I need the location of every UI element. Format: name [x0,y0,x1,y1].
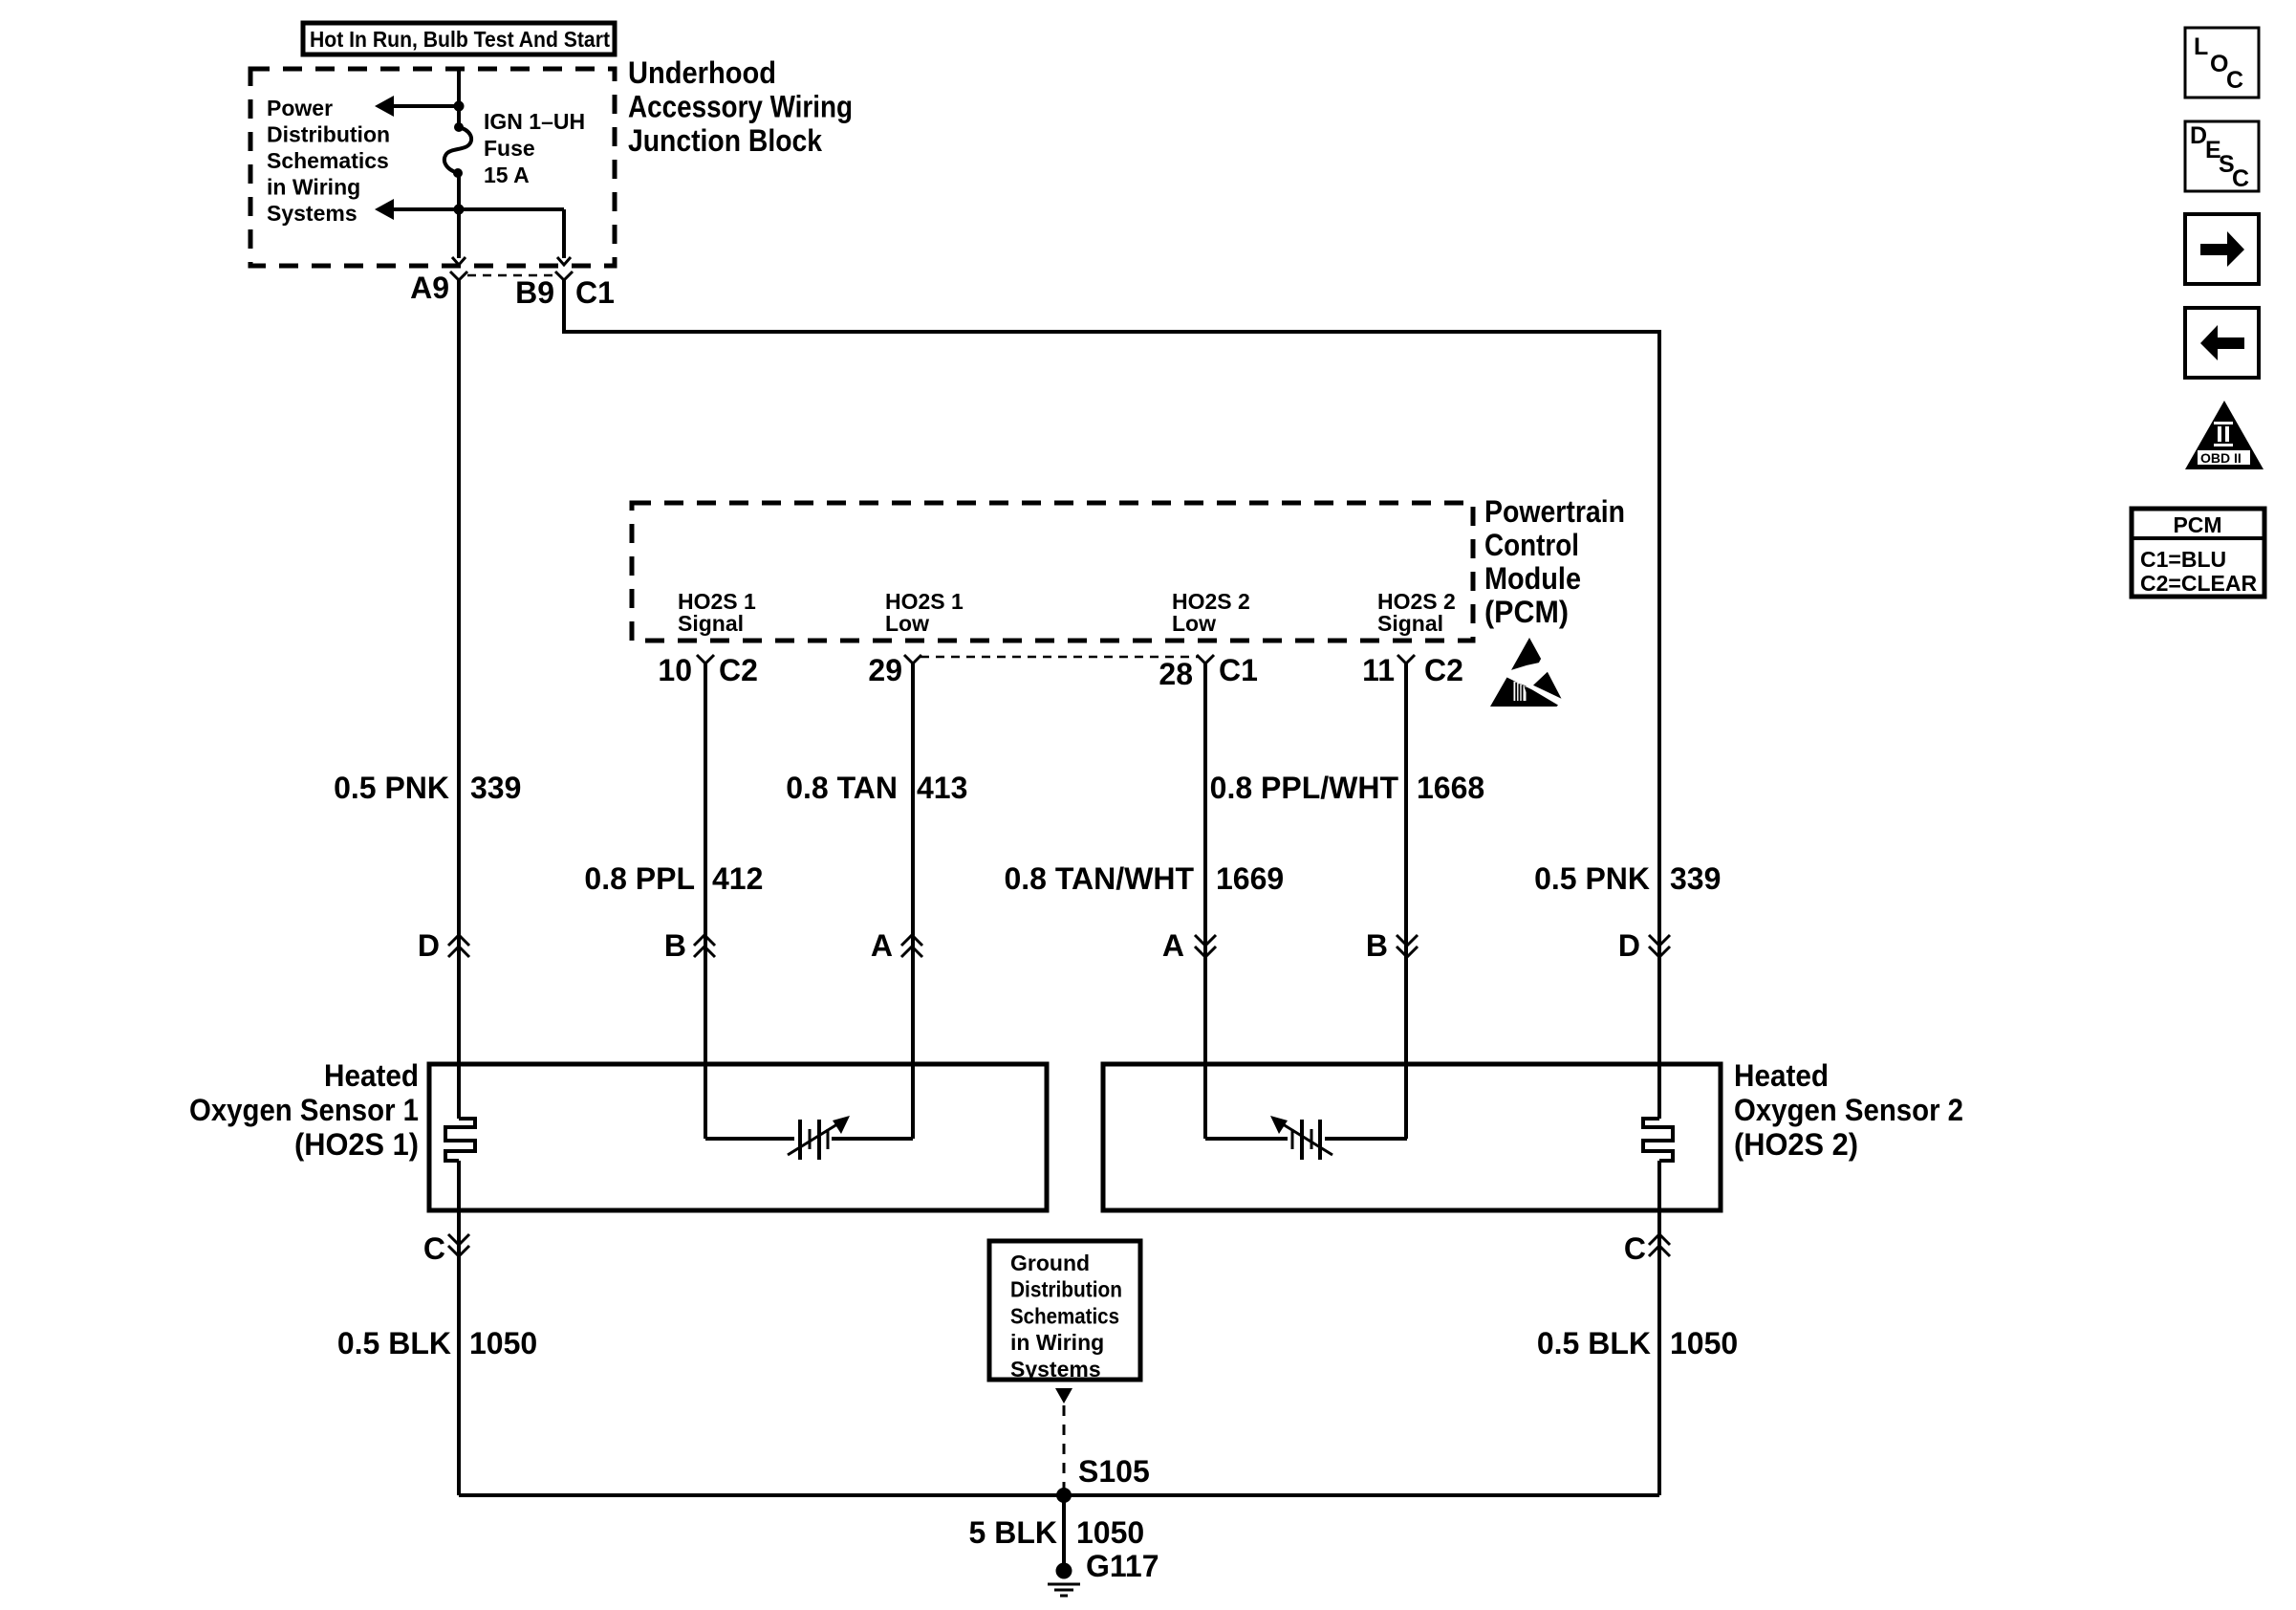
label 0.8 PPL/WHT 1668 [1210,771,1485,805]
svg-text:Signal: Signal [678,611,744,636]
label 0.5 PNK 339 left [334,771,521,805]
svg-text:Systems: Systems [1010,1357,1101,1382]
pin 29 [868,653,921,687]
connector B left (up) [664,928,715,963]
splice S105 [1056,1454,1150,1503]
svg-text:0.8 PPL/WHT: 0.8 PPL/WHT [1210,771,1399,805]
sensing element HO2S 1 [705,1116,913,1160]
HO2S 2 label [1734,1058,1963,1162]
junction block label [628,55,853,158]
wire: 0.5 PNK 339 (left feed to HO2S 1) [457,280,461,1119]
ESD symbol [1490,638,1562,707]
pin label HO2S 2 Low [1172,589,1250,636]
junction dot above fuse [454,101,465,112]
svg-text:0.5 BLK: 0.5 BLK [1537,1326,1651,1360]
power distribution note [267,96,390,226]
connector B right (down) [1366,928,1418,963]
wire: HO2S1 ground lead [457,1161,461,1495]
svg-text:0.5 BLK: 0.5 BLK [337,1326,451,1360]
svg-text:Oxygen Sensor 2: Oxygen Sensor 2 [1734,1093,1963,1127]
wire: feed from hot into block [457,67,461,126]
svg-text:Systems: Systems [267,201,357,226]
svg-text:PCM: PCM [2173,512,2221,537]
svg-text:15 A: 15 A [484,163,530,187]
connector B9 / C1 [515,272,615,310]
heater element HO2S 2 [1643,1119,1673,1161]
ground note pointer triangle [1055,1388,1072,1403]
svg-text:C1: C1 [1219,653,1258,687]
svg-text:D: D [1618,928,1640,963]
label 0.8 PPL 412 [584,861,763,896]
label 0.5 BLK 1050 left [337,1326,537,1360]
arrowhead into A9 [452,257,466,265]
svg-text:Schematics: Schematics [1010,1303,1119,1328]
PCM label [1484,494,1625,629]
ground distribution note box [989,1241,1140,1382]
svg-text:412: 412 [712,861,763,896]
svg-text:G117: G117 [1086,1549,1159,1583]
svg-text:1669: 1669 [1216,861,1284,896]
label 5 BLK 1050 [969,1515,1145,1550]
svg-text:1668: 1668 [1417,771,1484,805]
svg-text:C2=CLEAR: C2=CLEAR [2140,571,2257,596]
svg-text:29: 29 [868,653,902,687]
svg-text:Heated: Heated [324,1058,419,1093]
wire: feed to HO2S 2 via right side [564,280,1659,1119]
svg-text:28: 28 [1159,657,1193,691]
svg-text:413: 413 [917,771,967,805]
sensing element HO2S 2 [1205,1116,1407,1160]
arrow to power distribution (lower) [375,199,564,220]
svg-text:C: C [423,1231,445,1266]
connector A right (down) [1162,928,1216,963]
arrowhead into B9 [557,257,571,265]
icon DESC [2185,121,2259,192]
dashed connector face 29-28 [921,656,1198,659]
connector D left (up) [418,928,469,963]
fuse IGN 1-UH 15 A [444,122,471,178]
icon arrow left [2185,308,2259,378]
svg-text:IGN 1–UH: IGN 1–UH [484,109,585,134]
label 0.5 PNK 339 right [1534,861,1721,896]
HO2S 1 box [429,1064,1047,1210]
heater element HO2S 1 [445,1119,475,1161]
icon LOC [2185,28,2259,98]
svg-text:Powertrain: Powertrain [1484,494,1625,529]
svg-text:Signal: Signal [1377,611,1443,636]
svg-text:5 BLK: 5 BLK [969,1515,1057,1550]
svg-text:C2: C2 [719,653,758,687]
icon OBD II triangle [2185,401,2264,469]
pin label HO2S 1 Low [885,589,964,636]
wire: splice to ground [1062,1495,1066,1566]
connector C right (up) [1624,1231,1670,1266]
svg-text:339: 339 [1670,861,1721,896]
icon arrow right [2185,214,2259,284]
svg-text:(PCM): (PCM) [1484,595,1569,629]
svg-text:C1: C1 [575,275,615,310]
wire: pin 28 HO2S2 low [1203,664,1207,1139]
svg-text:S105: S105 [1078,1454,1150,1489]
HO2S 1 label [189,1058,419,1162]
wire: pin 11 HO2S2 signal [1404,664,1408,1139]
svg-text:Control: Control [1484,528,1579,562]
svg-text:Fuse: Fuse [484,136,535,161]
PCM dashed box [632,503,1473,641]
svg-text:in Wiring: in Wiring [1010,1330,1104,1355]
fuse label [484,109,585,187]
svg-text:1050: 1050 [1670,1326,1738,1360]
PCM connector legend [2132,509,2264,597]
svg-text:Hot In Run, Bulb Test And Star: Hot In Run, Bulb Test And Start [310,27,610,52]
wire: fuse output [457,173,461,258]
label 0.8 TAN 413 [786,771,967,805]
svg-text:1050: 1050 [1076,1515,1144,1550]
pin 11 C2 [1362,653,1463,687]
svg-text:Power: Power [267,96,333,120]
svg-text:0.5 PNK: 0.5 PNK [1534,861,1650,896]
svg-text:C: C [1624,1231,1646,1266]
svg-text:L: L [2194,33,2208,60]
svg-text:Low: Low [1172,611,1216,636]
arrow to power distribution (upper) [375,96,459,117]
svg-text:Junction Block: Junction Block [628,123,822,158]
wire: HO2S2 ground lead [1657,1161,1661,1495]
wire: ground bus 5 BLK 1050 [459,1493,1659,1497]
svg-text:(HO2S 1): (HO2S 1) [294,1127,419,1162]
junction dot below fuse [454,205,465,215]
svg-text:Ground: Ground [1010,1251,1090,1275]
connector D right (down) [1618,928,1670,963]
svg-text:Heated: Heated [1734,1058,1829,1093]
HO2S 2 box [1103,1064,1721,1210]
pin label HO2S 1 Signal [678,589,756,636]
ground G117 [1048,1549,1159,1596]
hot feed label box [303,23,615,54]
svg-text:Distribution: Distribution [267,122,390,147]
svg-text:10: 10 [658,653,692,687]
svg-text:D: D [418,928,440,963]
svg-text:339: 339 [470,771,521,805]
svg-text:B: B [664,928,686,963]
connector A left (up) [871,928,922,963]
dashed link to S105 [1063,1405,1066,1490]
pin 28 C1 [1159,653,1258,691]
svg-text:A9: A9 [410,271,449,305]
wire: pin 29 HO2S1 low [911,664,915,1139]
svg-text:(HO2S 2): (HO2S 2) [1734,1127,1858,1162]
wire: pin 10 HO2S1 signal [704,664,707,1139]
connector C left (down) [423,1231,469,1266]
label 0.8 TAN/WHT 1669 [1004,861,1284,896]
pin label HO2S 2 Signal [1377,589,1456,636]
svg-text:Oxygen Sensor 1: Oxygen Sensor 1 [189,1093,419,1127]
svg-text:C1=BLU: C1=BLU [2140,547,2226,572]
dashed connector face A9-B9 [467,274,555,277]
svg-text:A: A [1162,928,1184,963]
svg-text:C: C [2226,67,2243,94]
svg-text:Low: Low [885,611,929,636]
svg-text:1050: 1050 [469,1326,537,1360]
svg-text:OBD II: OBD II [2200,450,2242,466]
svg-text:0.5 PNK: 0.5 PNK [334,771,449,805]
svg-text:Module: Module [1484,561,1581,596]
underhood junction block (dashed box) [250,69,615,266]
label 0.5 BLK 1050 right [1537,1326,1738,1360]
svg-text:11: 11 [1362,653,1395,687]
pin 10 C2 [658,653,758,687]
svg-text:C2: C2 [1424,653,1463,687]
svg-text:C: C [2232,165,2249,192]
svg-text:Schematics: Schematics [267,148,389,173]
svg-text:in Wiring: in Wiring [267,175,360,200]
svg-text:0.8 TAN/WHT: 0.8 TAN/WHT [1004,861,1194,896]
svg-text:0.8 TAN: 0.8 TAN [786,771,898,805]
connector A9 [410,271,467,305]
wire: branch to B9 [562,209,566,258]
svg-text:Distribution: Distribution [1010,1277,1122,1302]
svg-text:Accessory Wiring: Accessory Wiring [628,90,853,124]
svg-text:0.8 PPL: 0.8 PPL [584,861,695,896]
svg-text:A: A [871,928,893,963]
svg-text:B: B [1366,928,1388,963]
svg-text:B9: B9 [515,275,554,310]
svg-text:Underhood: Underhood [628,55,776,90]
